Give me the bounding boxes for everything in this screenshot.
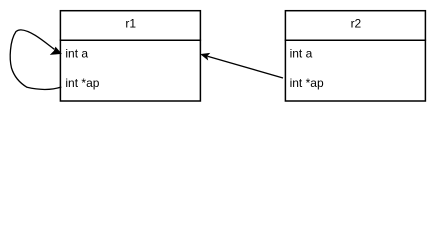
svg-text:int a: int a: [65, 47, 88, 61]
arrowhead into r1 right edge: [201, 53, 210, 59]
record box r1: [60, 11, 200, 101]
svg-text:int a: int a: [290, 47, 313, 61]
svg-text:int *ap: int *ap: [290, 76, 324, 90]
self-loop wire from r1 int *ap to r1 int a: [10, 30, 61, 90]
svg-text:r2: r2: [351, 17, 362, 31]
svg-text:r1: r1: [125, 17, 136, 31]
svg-text:int *ap: int *ap: [65, 76, 99, 90]
arrowhead into r1 int a: [51, 47, 62, 54]
record box r2: [285, 11, 425, 101]
wire from r2 int *ap to r1: [208, 56, 284, 78]
r1 header separator: [60, 39, 201, 41]
r2 header separator: [285, 39, 426, 41]
